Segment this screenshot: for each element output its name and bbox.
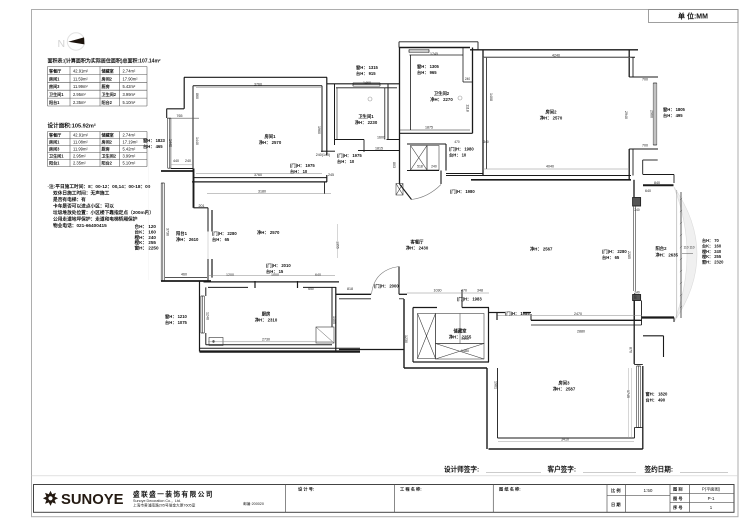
svg-text:(门)H： 2280: (门)H： 2280	[212, 230, 237, 237]
svg-text:窗H： 1823: 窗H： 1823	[143, 137, 166, 144]
living-balcony2 divider upper stub	[633, 180, 635, 197]
svg-text:窗H： 1305: 窗H： 1305	[417, 63, 440, 70]
svg-text:台H： 65: 台H： 65	[212, 236, 230, 243]
room1 left wall	[183, 77, 185, 109]
svg-text:4240: 4240	[552, 54, 560, 58]
svg-text:窗H： 2320: 窗H： 2320	[702, 259, 724, 265]
svg-text:1745: 1745	[626, 390, 630, 398]
svg-text:1960: 1960	[317, 126, 321, 134]
kitchen-hall door D2000 leaf	[398, 267, 400, 295]
svg-text:卫生间1: 卫生间1	[358, 113, 374, 120]
svg-text:面积表:(计算面积为实际居住面积)总面积:107.14m²: 面积表:(计算面积为实际居住面积)总面积:107.14m²	[48, 58, 161, 65]
svg-text:净H： 2430: 净H： 2430	[406, 245, 429, 252]
svg-text:是否有电梯：有: 是否有电梯：有	[52, 196, 86, 203]
svg-text:上海市黄浦南路205号瑞金大厦7605室: 上海市黄浦南路205号瑞金大厦7605室	[133, 503, 196, 508]
svg-text:17.90m²: 17.90m²	[123, 76, 139, 81]
svg-text:卫生间2: 卫生间2	[102, 91, 117, 97]
svg-text:518: 518	[417, 165, 423, 169]
hall south wall w/ kitchen-door	[336, 293, 371, 295]
svg-text:1440: 1440	[195, 137, 199, 145]
room3 left wall	[486, 368, 488, 449]
svg-text:(门)H： 1980: (门)H： 1980	[449, 146, 474, 153]
svg-text:台H： 1075: 台H： 1075	[165, 319, 188, 326]
bath1 window	[353, 82, 380, 84]
entry door leaf	[400, 184, 412, 200]
svg-text:2880: 2880	[577, 330, 585, 334]
svg-text:1600: 1600	[377, 136, 385, 140]
svg-text:房间1: 房间1	[49, 139, 60, 145]
svg-text:日 期: 日 期	[611, 501, 621, 508]
svg-text:700: 700	[642, 78, 648, 82]
svg-text:卫生间1: 卫生间1	[49, 91, 64, 97]
svg-text:垃圾堆放处位置：小区楼下靠指定点（200m内）: 垃圾堆放处位置：小区楼下靠指定点（200m内）	[53, 209, 154, 216]
svg-text:4040: 4040	[546, 165, 554, 169]
svg-text:樘K： 255: 樘K： 255	[702, 253, 722, 259]
svg-text:201: 201	[199, 204, 205, 208]
svg-text:2285: 2285	[627, 251, 631, 259]
balcony2 door pier bottom	[633, 295, 641, 301]
room2 bay window 1805	[652, 83, 654, 145]
kitchen left wall	[199, 281, 201, 352]
svg-text:860: 860	[195, 93, 199, 99]
svg-text:台H： 915: 台H： 915	[356, 70, 376, 77]
svg-text:卡车是否可以进点小区：可以: 卡车是否可以进点小区：可以	[53, 203, 114, 210]
storage shaft bottom	[436, 344, 485, 360]
balcony1 bottom wall	[161, 280, 211, 282]
svg-text:卫生间1: 卫生间1	[49, 153, 64, 159]
bath1 top wall	[327, 83, 400, 85]
room3 right wall upper seg	[633, 301, 635, 365]
svg-text:客餐厅: 客餐厅	[49, 132, 61, 138]
storage left wall	[412, 308, 414, 363]
svg-text:房间2: 房间2	[102, 75, 113, 81]
svg-text:11.59m²: 11.59m²	[73, 76, 88, 81]
svg-text:设计面积:105.92m²: 设计面积:105.92m²	[48, 122, 96, 130]
svg-text:窗H： 1210: 窗H： 1210	[165, 313, 188, 320]
svg-text:11.08m²: 11.08m²	[73, 140, 88, 145]
bath2 niche	[462, 48, 464, 83]
svg-text:(门)H： 2280: (门)H： 2280	[602, 248, 627, 255]
svg-text:240: 240	[634, 208, 640, 212]
balcony2 chord ticks	[680, 198, 682, 200]
svg-text:640: 640	[315, 273, 321, 277]
svg-text:1440: 1440	[169, 139, 173, 147]
svg-text:窗H： 1820: 窗H： 1820	[646, 391, 669, 398]
svg-text:3.99m²: 3.99m²	[123, 92, 136, 97]
svg-text:客餐厅: 客餐厅	[49, 67, 61, 73]
svg-text:240(140): 240(140)	[316, 153, 330, 157]
svg-text:1000: 1000	[271, 273, 279, 277]
bath2 outer top	[398, 42, 400, 48]
svg-text:2.35m²: 2.35m²	[73, 161, 86, 166]
svg-text:净H： 2310: 净H： 2310	[255, 317, 278, 324]
svg-text:470: 470	[461, 289, 467, 293]
svg-text:470: 470	[454, 140, 460, 144]
room1 right wall lower corner	[324, 182, 326, 194]
svg-text:3730: 3730	[166, 228, 170, 236]
svg-text:台H： 10: 台H： 10	[449, 152, 467, 159]
svg-text:42.91m²: 42.91m²	[73, 68, 89, 73]
room1 left ledge	[167, 108, 185, 110]
svg-text:SUNOYE: SUNOYE	[61, 492, 124, 508]
balcony2 bottom wall	[642, 316, 674, 318]
svg-text:110 110: 110 110	[684, 246, 695, 250]
balcony2 door/window strip	[633, 207, 635, 292]
balcony1/living wall	[207, 208, 209, 232]
room2 left wall	[482, 50, 484, 176]
svg-text:盛联盛一装饰有限公司: 盛联盛一装饰有限公司	[133, 490, 214, 499]
svg-text:台H： 10: 台H： 10	[290, 168, 308, 175]
kitchen door jamb ticks	[254, 281, 256, 288]
svg-text:净H： 2635: 净H： 2635	[656, 252, 679, 259]
area table 1	[48, 67, 148, 107]
balcony2 outer step top	[642, 160, 644, 175]
bath2 fixture circle	[458, 96, 462, 100]
balcony1 right jog	[194, 207, 209, 209]
balcony2 top wall	[643, 184, 674, 186]
svg-text:P-1: P-1	[708, 496, 715, 501]
svg-text:(门)H： 2010: (门)H： 2010	[266, 262, 291, 269]
balcony2 curved glazing crescent	[674, 187, 697, 322]
room3 bottom wall	[498, 437, 635, 439]
bath1 fixture circle	[368, 97, 372, 101]
svg-text:2.35m²: 2.35m²	[73, 100, 86, 105]
svg-text:11.99m²: 11.99m²	[73, 84, 88, 89]
svg-text:比 例: 比 例	[611, 487, 621, 494]
svg-text:阳台2: 阳台2	[102, 160, 113, 166]
svg-text:邮编·200020: 邮编·200020	[243, 501, 264, 506]
svg-text:设 计 号:: 设 计 号:	[298, 486, 314, 493]
svg-text:台K： 160: 台K： 160	[702, 242, 722, 248]
svg-text:3.99m²: 3.99m²	[123, 154, 136, 159]
svg-text:42.91m²: 42.91m²	[73, 133, 89, 138]
svg-text:(门)H： 1975: (门)H： 1975	[337, 152, 362, 159]
room2 right wall lower	[628, 149, 630, 180]
balcony2 door pier top	[633, 198, 641, 207]
svg-text:签约日期:: 签约日期:	[644, 465, 674, 474]
svg-text:765: 765	[177, 114, 183, 118]
storage shaft left	[418, 314, 436, 359]
svg-text:台H： 495: 台H： 495	[663, 112, 683, 119]
svg-text:1480: 1480	[461, 349, 469, 353]
svg-text:(门)H： 1980: (门)H： 1980	[450, 188, 475, 195]
svg-text:房间1: 房间1	[264, 133, 277, 140]
svg-text:1961: 1961	[494, 381, 498, 389]
room1 bottom wall	[193, 177, 327, 179]
svg-text:阳台2: 阳台2	[656, 245, 668, 252]
bath2 bottom wall	[400, 129, 471, 131]
svg-text:1875: 1875	[425, 126, 433, 130]
title block row lines	[607, 495, 670, 497]
svg-text:2.74m²: 2.74m²	[123, 133, 136, 138]
svg-text:2960: 2960	[650, 110, 654, 118]
svg-text:卫生间2: 卫生间2	[434, 90, 450, 97]
svg-text:阳台1: 阳台1	[176, 230, 188, 237]
room3 right wall outer	[642, 366, 644, 449]
svg-text:(门)H： 2000: (门)H： 2000	[374, 283, 399, 290]
bath2 window	[409, 49, 429, 51]
svg-text:840: 840	[654, 181, 660, 185]
svg-text:818: 818	[347, 287, 353, 291]
svg-text:房间2: 房间2	[545, 109, 558, 116]
room1 bay sill	[171, 168, 193, 170]
svg-text:11.99m²: 11.99m²	[73, 147, 88, 152]
svg-text:阳台1: 阳台1	[49, 160, 60, 166]
svg-text:房间1: 房间1	[49, 75, 60, 81]
svg-text:1030: 1030	[434, 289, 442, 293]
svg-text:1230: 1230	[404, 335, 408, 343]
room2 right bay	[629, 76, 658, 78]
svg-text:厨房: 厨房	[102, 83, 110, 89]
svg-text:N: N	[58, 38, 66, 50]
wall right of kitchen ext	[339, 349, 404, 351]
svg-text:240: 240	[633, 293, 637, 299]
svg-text:工 程 名 称:: 工 程 名 称:	[400, 486, 422, 493]
corridor wall to room2	[446, 173, 483, 175]
svg-text:245: 245	[328, 173, 334, 177]
building top outer line	[399, 41, 478, 43]
svg-text:净H： 2570: 净H： 2570	[540, 115, 563, 122]
storage bottom wall	[413, 361, 489, 363]
svg-text:460: 460	[181, 273, 187, 277]
extension line left	[148, 150, 150, 280]
svg-text:物业电话：021-66400415: 物业电话：021-66400415	[53, 222, 107, 229]
svg-text:净H： 2230: 净H： 2230	[355, 119, 378, 126]
storage outer left wall	[403, 299, 405, 368]
entry door arc	[412, 185, 442, 200]
dim lines	[207, 193, 331, 195]
svg-text:·注:平日施工时间：8：00-12：00,14：00-18：: ·注:平日施工时间：8：00-12：00,14：00-18：00	[48, 183, 151, 190]
bath1 door leaf	[363, 140, 365, 153]
svg-text:台H： 965: 台H： 965	[417, 69, 437, 76]
svg-text:卫生间2: 卫生间2	[102, 153, 117, 159]
room2 bottom wall	[446, 175, 631, 177]
svg-text:净H： 2587: 净H： 2587	[553, 386, 576, 393]
kitchen-hall door D2000 arc	[372, 267, 400, 295]
svg-text:5.42m²: 5.42m²	[123, 147, 136, 152]
svg-text:储藏室: 储藏室	[101, 132, 114, 138]
room1 top wall	[184, 76, 327, 78]
sunoye logo star	[43, 491, 58, 506]
passage wall seg	[489, 312, 505, 314]
unit box 单位:MM	[649, 10, 739, 23]
svg-text:净H： 2570: 净H： 2570	[257, 229, 280, 236]
svg-text:5.10m²: 5.10m²	[123, 100, 136, 105]
svg-text:樘H： 240: 樘H： 240	[702, 248, 722, 254]
svg-text:2.74m²: 2.74m²	[123, 68, 136, 73]
svg-text:2940: 2940	[624, 111, 628, 119]
svg-text:803: 803	[392, 162, 396, 168]
svg-text:房间3: 房间3	[49, 146, 60, 152]
corridor wall under bath1	[321, 150, 335, 152]
svg-text:1355: 1355	[336, 241, 340, 249]
svg-text:3180: 3180	[258, 190, 266, 194]
svg-text:台H： 65: 台H： 65	[602, 254, 620, 261]
hall dim line	[337, 224, 339, 258]
svg-text:厨房: 厨房	[262, 311, 271, 318]
svg-text:700: 700	[642, 144, 648, 148]
svg-text:房间2: 房间2	[102, 139, 113, 145]
svg-text:5.42m²: 5.42m²	[123, 84, 136, 89]
svg-text:1815: 1815	[375, 147, 383, 151]
bath2 left wall	[399, 48, 401, 140]
storage top wall	[413, 307, 437, 309]
svg-text:2730: 2730	[262, 338, 270, 342]
svg-text:1490: 1490	[461, 337, 469, 341]
bath1 right wall	[384, 88, 386, 140]
area table 2	[48, 132, 148, 167]
bath1 bottom wall	[335, 139, 365, 141]
svg-text:台H： 10: 台H： 10	[337, 158, 355, 165]
entry lower wall	[407, 170, 439, 172]
room3 window 1820	[636, 366, 638, 428]
svg-text:图 号: 图 号	[673, 495, 683, 502]
svg-text:设计师签字:: 设计师签字:	[444, 465, 479, 474]
svg-text:1118: 1118	[466, 104, 470, 111]
svg-text:净H： 2570: 净H： 2570	[259, 139, 282, 146]
kitchen right wall	[335, 287, 337, 351]
title block verticals	[285, 485, 287, 513]
svg-text:公用走道地坪保护：走道和电梯轿厢保护: 公用走道地坪保护：走道和电梯轿厢保护	[53, 216, 138, 223]
svg-text:序 号: 序 号	[673, 504, 683, 511]
svg-text:3760: 3760	[254, 83, 262, 87]
svg-text:客餐厅: 客餐厅	[410, 239, 425, 246]
kitchen window	[200, 296, 202, 333]
svg-text:1408: 1408	[489, 93, 493, 101]
svg-text:240: 240	[465, 77, 471, 81]
balcony2 chord dim line	[676, 190, 678, 318]
svg-text:房间3: 房间3	[49, 83, 60, 89]
svg-text:净H： 2610: 净H： 2610	[176, 236, 199, 243]
svg-text:240: 240	[185, 159, 191, 163]
svg-text:窗H： 2250: 窗H： 2250	[135, 245, 159, 252]
svg-text:阳台1: 阳台1	[49, 99, 60, 105]
wall room1/balcony1	[193, 169, 195, 208]
svg-text:台H： 70: 台H： 70	[702, 237, 720, 243]
svg-text:1240: 1240	[206, 312, 210, 320]
svg-text:净H： 2270: 净H： 2270	[430, 96, 453, 103]
svg-text:1460: 1460	[363, 81, 371, 85]
svg-text:650: 650	[308, 287, 314, 291]
bath2 right wall	[472, 48, 474, 134]
svg-text:1745: 1745	[430, 52, 438, 56]
svg-text:348: 348	[477, 289, 483, 293]
svg-text:Sunoye Decoration Co.，Ltd.: Sunoye Decoration Co.，Ltd.	[133, 499, 181, 503]
svg-text:2.95m²: 2.95m²	[73, 92, 86, 97]
svg-text:储藏室: 储藏室	[453, 328, 468, 335]
kitchen flue box	[316, 327, 334, 343]
svg-text:3410: 3410	[561, 437, 569, 441]
balcony1 glazing	[160, 183, 162, 281]
under-storage outer wall	[404, 367, 487, 369]
svg-text:客户签字:: 客户签字:	[547, 465, 577, 474]
entry shaft	[411, 146, 428, 171]
title block frame	[34, 485, 735, 513]
svg-text:(门)H： 1985: (门)H： 1985	[505, 310, 530, 317]
svg-text:窗H： 1805: 窗H： 1805	[663, 106, 686, 113]
storage door leaf	[461, 290, 463, 308]
svg-text:1:50: 1:50	[644, 488, 653, 493]
room3 top wall	[531, 319, 642, 321]
room3 right dim lines	[627, 368, 629, 438]
svg-text:房间3: 房间3	[558, 380, 571, 387]
svg-text:17.19m²: 17.19m²	[123, 140, 139, 145]
room2 top wall	[470, 49, 638, 51]
room2 right wall upper	[628, 50, 630, 77]
entry top wall	[407, 143, 446, 145]
balcony1 top wall	[161, 170, 193, 172]
svg-text:台H： 465: 台H： 465	[143, 143, 163, 150]
room1 bay window	[167, 118, 169, 168]
svg-text:台H： 490: 台H： 490	[646, 397, 666, 404]
svg-text:640: 640	[645, 189, 651, 193]
svg-text:1200: 1200	[226, 273, 234, 277]
drawing area separator	[32, 475, 739, 477]
bath2 top wall	[399, 47, 470, 49]
room1 right wall	[326, 77, 328, 155]
svg-text:图 纸 名 称:: 图 纸 名 称:	[499, 486, 521, 493]
svg-text:340: 340	[483, 140, 489, 144]
entry niche	[396, 184, 403, 196]
svg-text:2.95m²: 2.95m²	[73, 154, 86, 159]
svg-text:储藏室: 储藏室	[101, 67, 114, 73]
svg-text:净H： 2567: 净H： 2567	[530, 246, 553, 253]
svg-text:单 位:MM: 单 位:MM	[678, 12, 708, 21]
svg-text:1405: 1405	[332, 316, 336, 324]
svg-text:阳台2: 阳台2	[102, 99, 113, 105]
svg-text:厨房: 厨房	[102, 146, 110, 152]
svg-text:双休日施工时间：无声施工: 双休日施工时间：无声施工	[53, 190, 110, 197]
svg-text:(门)H： 1983: (门)H： 1983	[457, 296, 482, 303]
kitchen stove box	[209, 338, 223, 346]
entry left wall	[399, 140, 401, 185]
svg-text:图 别: 图 别	[673, 486, 683, 493]
storage right wall	[488, 308, 490, 363]
svg-text:870: 870	[629, 347, 633, 353]
svg-text:440: 440	[173, 159, 179, 163]
svg-text:5.10m²: 5.10m²	[123, 161, 136, 166]
svg-text:240: 240	[431, 165, 437, 169]
svg-text:窗H： 1315: 窗H： 1315	[356, 64, 379, 71]
bath1 left wall	[334, 84, 336, 145]
divider wall lower	[633, 301, 635, 321]
kitchen bottom wall	[206, 344, 332, 346]
balcony2 se corner walls	[643, 335, 664, 337]
kitchen top wall	[204, 281, 340, 283]
svg-text:(门)H： 1975: (门)H： 1975	[290, 162, 315, 169]
